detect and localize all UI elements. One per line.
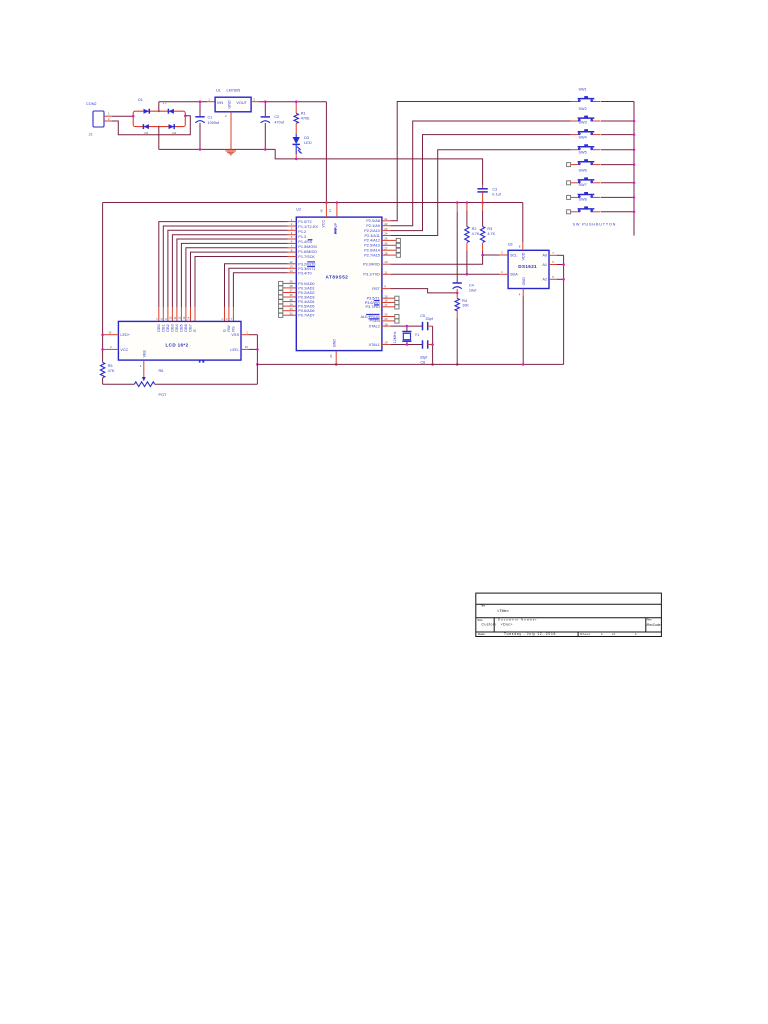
junction SW2 bus bbox=[633, 120, 636, 123]
wire bridge bottom to ground rail bbox=[158, 127, 160, 150]
svg-text:24: 24 bbox=[384, 232, 388, 236]
svg-text:26: 26 bbox=[384, 242, 388, 246]
junction crystal bottom bbox=[406, 343, 409, 346]
MCU P3.5 P3.6 P3.7 pins bbox=[365, 294, 399, 309]
DS1621 SDA pin 1 bbox=[500, 270, 519, 277]
junction C1 top bbox=[199, 100, 202, 103]
junction R1 top bbox=[295, 100, 298, 103]
svg-text:AT89S52: AT89S52 bbox=[326, 274, 349, 279]
svg-text:Sheet: Sheet bbox=[580, 632, 591, 636]
LCD pin VCC 2 bbox=[103, 345, 129, 352]
DS1621 A2 pin 5 bbox=[542, 275, 563, 282]
MCU right P2 pin stubs bbox=[382, 221, 401, 258]
svg-text:Tuesday , July 12, 2016: Tuesday , July 12, 2016 bbox=[504, 632, 556, 636]
svg-text:14: 14 bbox=[187, 316, 191, 320]
svg-text:Date:: Date: bbox=[478, 632, 486, 636]
junction C1 bottom bbox=[199, 148, 202, 151]
svg-text:R5: R5 bbox=[108, 364, 113, 368]
svg-text:Custom: Custom bbox=[482, 623, 497, 627]
svg-text:29: 29 bbox=[384, 317, 388, 321]
svg-text:13: 13 bbox=[289, 265, 293, 269]
wire LCD D4 to P1.4 bbox=[177, 239, 288, 321]
svg-text:LED-: LED- bbox=[230, 348, 239, 352]
svg-text:P2.1/A9: P2.1/A9 bbox=[366, 224, 380, 228]
potentiometer R6 bbox=[103, 369, 258, 397]
svg-text:13: 13 bbox=[182, 316, 186, 320]
junction SW6 bus bbox=[633, 182, 636, 185]
title block frame bbox=[476, 593, 662, 636]
svg-text:0.1uf: 0.1uf bbox=[492, 193, 501, 197]
MCU EA pin 31 bbox=[328, 203, 338, 235]
svg-text:4.7K: 4.7K bbox=[472, 232, 480, 236]
svg-text:P0.4/AD4: P0.4/AD4 bbox=[298, 300, 314, 304]
wire SW8 to bus bbox=[601, 211, 634, 213]
junction A1 bbox=[562, 263, 565, 266]
DS1621 SCL pin 2 bbox=[500, 251, 518, 258]
svg-text:GND: GND bbox=[228, 100, 232, 109]
svg-text:P3.1/TXD: P3.1/TXD bbox=[363, 273, 380, 277]
wire SW1 to bus bbox=[601, 101, 634, 103]
P1 pin numbers bbox=[291, 218, 293, 253]
pushbutton SW6 bbox=[567, 169, 601, 185]
bridge top center connection bbox=[158, 110, 160, 112]
wire SCL to DS1621 bbox=[483, 254, 500, 256]
svg-text:P3.4/T0: P3.4/T0 bbox=[298, 271, 311, 275]
svg-text:P0.3/AD3: P0.3/AD3 bbox=[298, 296, 314, 300]
svg-text:47K: 47K bbox=[108, 369, 115, 373]
DS1621 A1 pin 6 bbox=[542, 260, 563, 267]
LCD 16x2 module bbox=[118, 321, 241, 360]
svg-text:LED+: LED+ bbox=[120, 333, 130, 337]
junction SW8 bus bbox=[633, 211, 636, 214]
junction DS1621 GND on rail bbox=[522, 363, 525, 366]
svg-text:28: 28 bbox=[384, 251, 388, 255]
svg-text:Title: Title bbox=[481, 604, 486, 607]
svg-text:P1.6/MISO: P1.6/MISO bbox=[298, 250, 317, 254]
MCU left pin stubs P3.2-P3.4 bbox=[288, 264, 297, 273]
+5V feed down to rail bbox=[325, 102, 327, 203]
svg-text:11: 11 bbox=[173, 316, 177, 319]
wire P3.1 SDA to DS1621 bbox=[391, 273, 500, 275]
MCU GND pin 20 bbox=[329, 339, 336, 365]
svg-text:22: 22 bbox=[384, 222, 388, 226]
svg-text:12MHz: 12MHz bbox=[393, 331, 397, 343]
junction LED bottom bbox=[295, 158, 298, 161]
svg-text:P2.2/A10: P2.2/A10 bbox=[364, 229, 380, 233]
svg-text:VCC: VCC bbox=[321, 220, 325, 228]
MCU P3.0 RXD pin 10 bbox=[363, 260, 391, 266]
junction R2 on SDA bbox=[466, 273, 469, 276]
svg-text:P0.6/AD6: P0.6/AD6 bbox=[298, 309, 314, 313]
svg-text:25: 25 bbox=[384, 237, 388, 241]
U1 GND pin wire bbox=[230, 112, 232, 150]
svg-text:VCC: VCC bbox=[120, 348, 128, 352]
junction C6 on vertical bbox=[431, 343, 434, 346]
svg-text:D1: D1 bbox=[138, 98, 143, 102]
svg-text:Rev: Rev bbox=[647, 618, 653, 622]
svg-text:R6: R6 bbox=[159, 369, 164, 373]
svg-text:ALE/PROG: ALE/PROG bbox=[360, 315, 379, 319]
svg-text:P1.7/SCK: P1.7/SCK bbox=[298, 255, 315, 259]
svg-text:CON2: CON2 bbox=[86, 102, 97, 106]
svg-text:P1.4/SS: P1.4/SS bbox=[298, 240, 312, 244]
svg-text:SCL: SCL bbox=[510, 253, 517, 257]
junction VCC stub on rail bbox=[325, 201, 328, 204]
bridge diode top-right bbox=[168, 109, 174, 114]
wire LCD D6 to P1.6 bbox=[186, 248, 288, 322]
svg-text:19: 19 bbox=[384, 341, 388, 345]
svg-text:P1.2: P1.2 bbox=[298, 230, 306, 234]
svg-text:P3.7/RD: P3.7/RD bbox=[366, 305, 381, 309]
svg-text:10: 10 bbox=[169, 316, 173, 320]
junction at bridge right node bbox=[184, 115, 187, 118]
svg-text:15: 15 bbox=[108, 330, 112, 334]
wire P2.0 to SW1 bbox=[391, 102, 571, 221]
wire SW5 to bus bbox=[601, 164, 634, 166]
svg-text:GND: GND bbox=[522, 277, 526, 286]
wire U1 VOUT +5V bbox=[251, 101, 326, 103]
junction SW3 bus bbox=[633, 133, 636, 136]
+5V branch down left side to LCD bbox=[102, 203, 104, 363]
svg-text:17: 17 bbox=[384, 303, 388, 307]
svg-text:VEE: VEE bbox=[142, 349, 146, 357]
svg-text:P0.0/AD0: P0.0/AD0 bbox=[298, 282, 314, 286]
svg-text:P3.3/INT1: P3.3/INT1 bbox=[298, 267, 315, 271]
svg-text:SW4: SW4 bbox=[579, 136, 587, 140]
MCU left pin stubs P1 bbox=[288, 222, 297, 257]
wire SW6 to bus bbox=[601, 182, 634, 184]
svg-text:27: 27 bbox=[384, 246, 388, 250]
svg-text:P2.0/A8: P2.0/A8 bbox=[366, 219, 380, 223]
resistor R5 47K bbox=[100, 362, 114, 384]
svg-text:XTAL1: XTAL1 bbox=[369, 343, 380, 347]
svg-text:10: 10 bbox=[384, 260, 388, 264]
junction MCU GND on rail bbox=[335, 363, 338, 366]
svg-text:LM7805: LM7805 bbox=[227, 88, 241, 92]
junction crystal ground on rail bbox=[431, 363, 434, 366]
junction LED- bbox=[256, 348, 259, 351]
LCD pin LED- 16 bbox=[230, 345, 257, 352]
svg-text:DB7: DB7 bbox=[189, 324, 193, 331]
resistor R1 470E bbox=[294, 102, 310, 134]
LCD top pin numbers bbox=[155, 316, 234, 320]
P1 pin names bbox=[298, 220, 318, 259]
svg-text:C6: C6 bbox=[420, 360, 425, 364]
svg-text:470E: 470E bbox=[301, 116, 310, 120]
svg-text:SW7: SW7 bbox=[579, 183, 587, 187]
svg-text:U1: U1 bbox=[216, 88, 221, 92]
wire LCD D7 to P1.7 bbox=[191, 252, 288, 321]
svg-text:Size: Size bbox=[477, 618, 483, 622]
wire P3.0 to SCL node bbox=[391, 255, 483, 264]
svg-text:37: 37 bbox=[289, 289, 293, 293]
LED D3 bbox=[293, 134, 312, 159]
wire P2.1 to SW2 bbox=[391, 121, 571, 226]
svg-text:470uf: 470uf bbox=[274, 120, 284, 124]
wire LCD D0 to P1.0 bbox=[159, 222, 288, 322]
wire P2.2 to SW3 bbox=[391, 135, 571, 231]
connector J1 CON2 bbox=[86, 102, 104, 136]
bridge diode bottom-left D2 bbox=[143, 124, 149, 135]
svg-text:P3.2/INT0: P3.2/INT0 bbox=[298, 262, 315, 266]
junction C2 top bbox=[264, 100, 267, 103]
svg-text:C1: C1 bbox=[208, 116, 213, 120]
svg-text:34: 34 bbox=[289, 302, 293, 306]
wire RST to C4 R4 node bbox=[391, 289, 458, 293]
svg-text:P2.5/A13: P2.5/A13 bbox=[364, 244, 380, 248]
svg-text:R2: R2 bbox=[472, 227, 477, 231]
capacitor C1 1000uF bbox=[195, 102, 220, 150]
P0 pin numbers bbox=[289, 280, 293, 316]
svg-text:P1.0/T2: P1.0/T2 bbox=[298, 220, 311, 224]
pin 1 of J1 bbox=[104, 112, 112, 117]
svg-text:14: 14 bbox=[289, 269, 293, 273]
P2 pin numbers bbox=[384, 217, 388, 255]
svg-text:SW1: SW1 bbox=[579, 87, 587, 91]
P3.2-P3.4 pin numbers bbox=[289, 260, 293, 273]
svg-text:DB4: DB4 bbox=[175, 324, 179, 331]
ground rail of power supply bbox=[159, 148, 275, 150]
LCD pin LED+ 15 bbox=[103, 330, 131, 337]
LCD top pin names bbox=[157, 324, 236, 331]
svg-text:C4: C4 bbox=[469, 283, 474, 287]
svg-text:C3: C3 bbox=[492, 187, 497, 191]
wire LCD right side down bbox=[256, 335, 258, 385]
junction C4 line on rail bbox=[456, 201, 459, 204]
svg-text:C2: C2 bbox=[274, 115, 279, 119]
svg-text:of: of bbox=[612, 632, 615, 636]
MCU RST pin 9 bbox=[372, 285, 390, 291]
junction C3 R3 on rail bbox=[481, 201, 484, 204]
svg-text:P2.4/A12: P2.4/A12 bbox=[364, 239, 380, 243]
pin 2 of J1 bbox=[104, 117, 112, 121]
svg-text:10uf: 10uf bbox=[469, 288, 477, 292]
svg-text:P2.7/A15: P2.7/A15 bbox=[364, 253, 380, 257]
svg-text:J1: J1 bbox=[89, 133, 93, 137]
svg-text:SW6: SW6 bbox=[579, 169, 587, 173]
svg-text:A2: A2 bbox=[542, 278, 547, 282]
junction SW5 bus bbox=[633, 163, 636, 166]
title block texts bbox=[477, 604, 662, 636]
LCD bottom edge pin marks bbox=[199, 360, 201, 362]
svg-text:P1.3: P1.3 bbox=[298, 235, 306, 239]
svg-text:20: 20 bbox=[329, 354, 333, 358]
wire A0 A1 A2 to ground rail bbox=[563, 255, 565, 364]
svg-text:P0.1/AD1: P0.1/AD1 bbox=[298, 286, 314, 290]
LCD pin VEE 3 bbox=[140, 349, 147, 381]
junction R2 on rail bbox=[466, 201, 469, 204]
svg-text:R1: R1 bbox=[301, 111, 306, 115]
svg-text:30: 30 bbox=[384, 313, 388, 317]
ground rail lower bbox=[257, 363, 563, 365]
junction LED+ on left feed bbox=[101, 333, 104, 336]
P3.2-P3.4 pin names bbox=[298, 262, 315, 275]
bridge diode top-left bbox=[144, 109, 150, 114]
wire J1 pin1 to bridge left node bbox=[112, 115, 133, 117]
svg-text:SW3: SW3 bbox=[579, 120, 587, 124]
regulator U1 LM7805 bbox=[208, 88, 255, 117]
crystal Y1 12MHz bbox=[393, 326, 419, 344]
svg-text:P2.3/A11: P2.3/A11 bbox=[365, 234, 380, 238]
svg-text:1: 1 bbox=[635, 632, 637, 636]
pushbutton SW1 bbox=[571, 87, 601, 101]
svg-text:36: 36 bbox=[289, 293, 293, 297]
wire LCD RW to P3.3 bbox=[229, 268, 288, 321]
svg-text:D4: D4 bbox=[173, 131, 177, 135]
resistor R3 4.7K bbox=[480, 203, 495, 256]
svg-text:D3: D3 bbox=[304, 136, 309, 140]
svg-text:C5: C5 bbox=[420, 314, 425, 318]
wire XTAL1 line bbox=[391, 344, 423, 346]
svg-text:38: 38 bbox=[289, 284, 293, 288]
capacitor C5 33pf bbox=[420, 314, 434, 330]
pushbutton SW4 bbox=[571, 136, 601, 150]
MCU VCC pin 40 bbox=[319, 203, 326, 228]
svg-text:16: 16 bbox=[245, 345, 249, 349]
pushbutton SW7 bbox=[567, 183, 601, 199]
svg-text:P0.2/AD2: P0.2/AD2 bbox=[298, 291, 314, 295]
svg-text:23: 23 bbox=[384, 227, 388, 231]
DS1621 A0 pin 7 bbox=[542, 251, 563, 258]
wire LCD D1 to P1.1 bbox=[163, 226, 287, 321]
wire J1 pin2 to bridge right node bbox=[112, 116, 190, 135]
wire P2.3 to SW4 bbox=[391, 150, 571, 236]
svg-text:DB1: DB1 bbox=[161, 324, 165, 331]
svg-text:<RevCode>: <RevCode> bbox=[645, 623, 662, 627]
bridge rectifier D1 outline bbox=[133, 111, 185, 126]
svg-text:11: 11 bbox=[384, 270, 387, 274]
svg-text:D2: D2 bbox=[145, 131, 149, 135]
svg-text:VOUT: VOUT bbox=[236, 101, 247, 105]
capacitor C3 0.1uF bbox=[477, 185, 501, 202]
svg-text:4.7K: 4.7K bbox=[487, 232, 495, 236]
svg-text:21: 21 bbox=[384, 217, 388, 221]
junction SW4 bus bbox=[633, 148, 636, 151]
svg-text:P1.1/T2-EX: P1.1/T2-EX bbox=[298, 225, 318, 229]
resistor R2 4.7K bbox=[465, 203, 480, 275]
svg-text:10K: 10K bbox=[462, 304, 469, 308]
MCU ALE PSEN pins bbox=[360, 313, 399, 324]
capacitor C4 10uF bbox=[453, 203, 478, 299]
bridge bottom center connection bbox=[158, 126, 160, 128]
svg-text:PSEN: PSEN bbox=[370, 319, 381, 323]
svg-text:DS1621: DS1621 bbox=[518, 264, 537, 269]
P0 pin names bbox=[298, 282, 314, 318]
junction crystal top bbox=[406, 325, 409, 328]
svg-text:VIN: VIN bbox=[217, 101, 224, 105]
svg-text:33pf: 33pf bbox=[425, 317, 433, 321]
svg-text:DB3: DB3 bbox=[170, 324, 174, 331]
svg-text:RW: RW bbox=[227, 325, 231, 332]
junction R4 on ground rail bbox=[456, 363, 459, 366]
MCU XTAL2 pin 18 bbox=[369, 322, 391, 328]
svg-text:Y1: Y1 bbox=[415, 333, 420, 337]
junction C2 bottom bbox=[264, 148, 267, 151]
svg-text:SW8: SW8 bbox=[579, 198, 587, 202]
wire XTAL2 line bbox=[391, 325, 423, 327]
DS1621 VDD pin 8 bbox=[519, 203, 526, 261]
svg-text:12: 12 bbox=[289, 260, 293, 264]
P2 pin names bbox=[364, 219, 380, 257]
svg-text:18: 18 bbox=[384, 322, 388, 326]
junction RST node bbox=[456, 292, 459, 295]
junction EA stub on rail bbox=[336, 201, 339, 204]
MCU XTAL1 pin 19 bbox=[369, 341, 391, 347]
svg-text:40: 40 bbox=[319, 209, 323, 213]
junction SW7 bus bbox=[633, 196, 636, 199]
svg-text:P1.5/MOSI: P1.5/MOSI bbox=[298, 245, 317, 249]
svg-text:U2: U2 bbox=[296, 208, 301, 212]
junction VCC on left feed bbox=[101, 348, 104, 351]
svg-text:DB0: DB0 bbox=[157, 324, 161, 331]
bridge diode bottom-right D4 bbox=[169, 124, 177, 135]
svg-text:39: 39 bbox=[289, 280, 293, 284]
junction A2 bbox=[562, 278, 565, 281]
svg-text:A1: A1 bbox=[542, 263, 547, 267]
junction ground rail left end bbox=[256, 363, 259, 366]
pushbutton SW5 bbox=[567, 150, 601, 166]
microcontroller U2 AT89S52 bbox=[296, 208, 382, 351]
wire LCD D2 to P1.2 bbox=[168, 230, 288, 321]
svg-text:P0.5/AD5: P0.5/AD5 bbox=[298, 305, 314, 309]
wire LCD RS to P3.4 bbox=[233, 273, 287, 322]
junction at bridge left node bbox=[132, 115, 135, 118]
svg-text:LED: LED bbox=[304, 141, 312, 145]
wire LCD E to P3.2 bbox=[225, 264, 288, 322]
MCU left pin stubs P0 with no-connect squares bbox=[279, 281, 297, 317]
switch bus vertical bbox=[633, 102, 635, 236]
svg-text:P0.7/AD7: P0.7/AD7 bbox=[298, 314, 314, 318]
svg-text:31: 31 bbox=[328, 209, 332, 213]
svg-text:P2.6/A14: P2.6/A14 bbox=[364, 249, 380, 253]
capacitor C6 33pf bbox=[420, 340, 433, 364]
svg-text:DB5: DB5 bbox=[179, 324, 183, 331]
wire LCD data 9th bbox=[195, 257, 288, 322]
svg-text:U3: U3 bbox=[508, 243, 513, 247]
svg-text:P3.0/RXD: P3.0/RXD bbox=[363, 263, 380, 267]
svg-text:<Doc>: <Doc> bbox=[501, 623, 513, 627]
svg-text:DB6: DB6 bbox=[184, 324, 188, 331]
svg-text:33pf: 33pf bbox=[420, 356, 428, 360]
svg-text:LCD 16*2: LCD 16*2 bbox=[166, 342, 189, 347]
svg-text:32: 32 bbox=[289, 311, 293, 315]
svg-text:VSS: VSS bbox=[231, 333, 239, 337]
wire LCD D3 to P1.3 bbox=[172, 235, 287, 322]
DS1621 GND pin 4 bbox=[519, 277, 526, 365]
ground path to C3 bbox=[275, 149, 482, 185]
svg-text:VDD: VDD bbox=[522, 252, 526, 260]
wire SW4 to bus bbox=[601, 149, 634, 151]
svg-text:GND: GND bbox=[333, 339, 337, 348]
svg-text:SW PUSHBUTTON: SW PUSHBUTTON bbox=[573, 223, 617, 227]
pushbutton SW8 bbox=[567, 198, 601, 214]
wire SW7 to bus bbox=[601, 196, 634, 198]
resistor R4 10K bbox=[455, 298, 469, 364]
svg-text:1: 1 bbox=[601, 632, 603, 636]
svg-text:35: 35 bbox=[289, 298, 293, 302]
svg-text:RS: RS bbox=[231, 326, 235, 332]
svg-text:33: 33 bbox=[289, 307, 293, 311]
+5V rail bbox=[103, 202, 523, 204]
svg-text:1000uf: 1000uf bbox=[208, 121, 221, 125]
wire SW2 to bus bbox=[601, 120, 634, 122]
svg-text:SW5: SW5 bbox=[579, 150, 587, 154]
temperature sensor U3 DS1621 bbox=[508, 243, 549, 289]
LCD pin VSS 1 bbox=[231, 330, 257, 337]
wire SW3 to bus bbox=[601, 134, 634, 136]
svg-text:RST: RST bbox=[372, 287, 380, 291]
wire LCD D5 to P1.5 bbox=[181, 243, 287, 321]
